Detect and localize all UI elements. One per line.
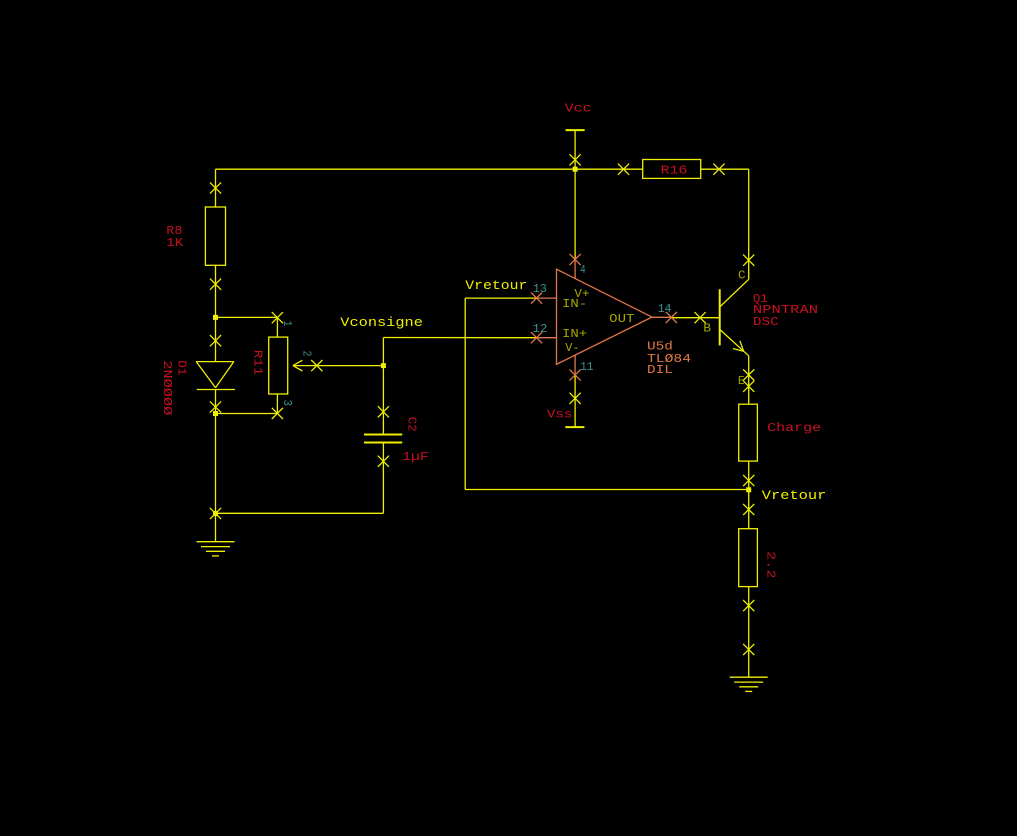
- svg-text:2NØØØØ: 2NØØØØ: [160, 360, 174, 415]
- svg-text:Vretour: Vretour: [465, 278, 527, 293]
- svg-text:Vss: Vss: [547, 408, 573, 422]
- svg-text:Vcc: Vcc: [565, 101, 592, 115]
- svg-text:IN+: IN+: [562, 327, 587, 341]
- svg-text:4: 4: [580, 263, 586, 277]
- svg-text:DIL: DIL: [647, 363, 673, 377]
- svg-text:3: 3: [280, 400, 294, 407]
- svg-text:1K: 1K: [166, 236, 184, 250]
- svg-text:R11: R11: [251, 350, 265, 375]
- svg-text:B: B: [703, 321, 711, 335]
- svg-text:Vconsigne: Vconsigne: [340, 315, 423, 330]
- svg-text:2.2: 2.2: [764, 551, 778, 579]
- svg-text:12: 12: [533, 322, 548, 336]
- svg-text:1µF: 1µF: [402, 450, 429, 464]
- svg-text:D1: D1: [175, 360, 189, 375]
- svg-text:C: C: [738, 268, 746, 282]
- svg-text:Vretour: Vretour: [762, 488, 827, 503]
- svg-text:Charge: Charge: [767, 421, 821, 435]
- svg-text:11: 11: [580, 360, 593, 374]
- svg-text:R16: R16: [661, 163, 688, 177]
- svg-text:OUT: OUT: [609, 312, 634, 326]
- svg-text:14: 14: [658, 302, 672, 316]
- svg-text:C2: C2: [404, 417, 418, 432]
- svg-text:2: 2: [299, 351, 313, 357]
- svg-text:1: 1: [280, 321, 294, 327]
- svg-text:IN-: IN-: [562, 297, 587, 311]
- svg-text:V-: V-: [565, 341, 579, 355]
- svg-text:E: E: [738, 374, 745, 388]
- svg-text:13: 13: [533, 282, 547, 296]
- svg-text:DSC: DSC: [753, 315, 779, 329]
